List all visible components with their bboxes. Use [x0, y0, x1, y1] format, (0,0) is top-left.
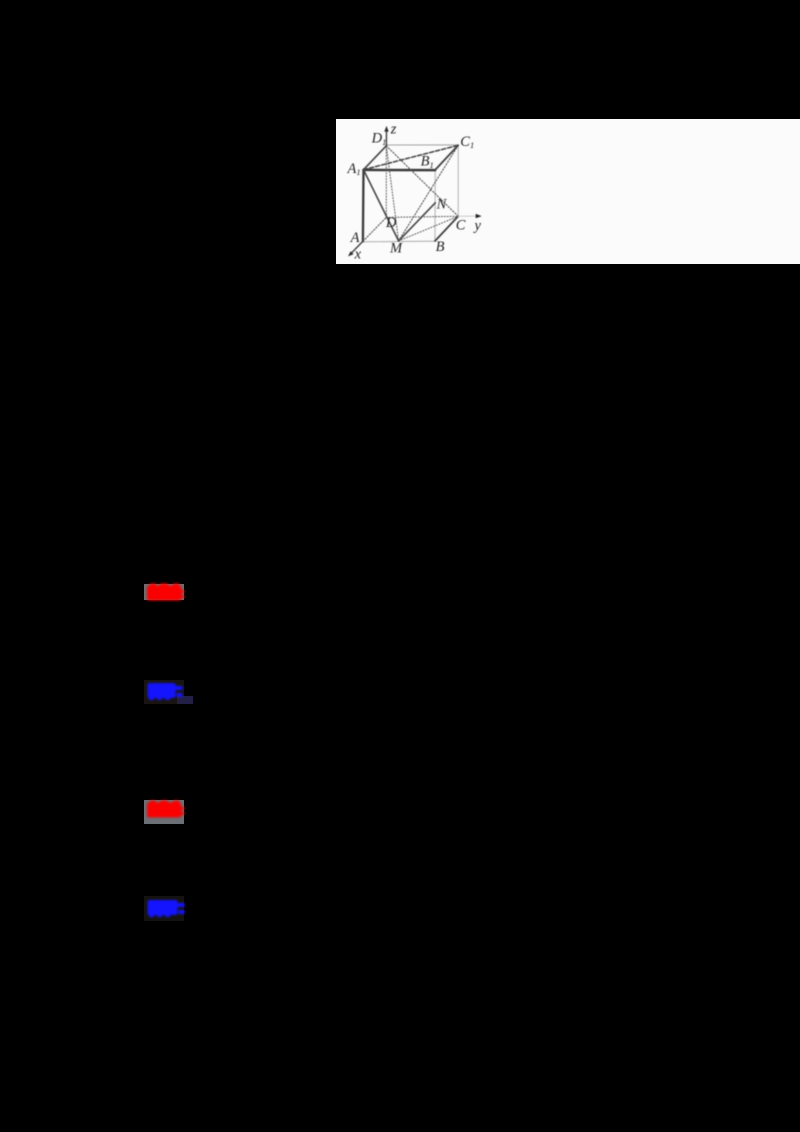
wire: edge A-B (bottom front, light) — [363, 240, 435, 243]
wire: segment A1-M — [364, 170, 399, 241]
svg-text:x: x — [354, 247, 362, 263]
svg-text:A1: A1 — [347, 161, 361, 177]
svg-text:D1: D1 — [371, 131, 387, 147]
red tag 2 (blurred 解析 label) — [144, 800, 184, 825]
red tag 1 (blurred 解析 label) — [144, 584, 184, 600]
wire: edge B-B1 (light) — [434, 170, 436, 241]
blue tag 2 (blurred 答案 label) — [144, 896, 185, 921]
svg-text:B: B — [436, 239, 445, 255]
wire: segment D1-M (dotted) — [386, 146, 398, 241]
wire: segment M-N — [399, 203, 436, 241]
wire: segment C1-M (dashed) — [399, 145, 459, 241]
wire: edge A-A1 (thick) — [362, 170, 365, 242]
wire: hidden edge D-D1 (dotted) — [385, 146, 387, 218]
wire: edge C-C1 (light) — [457, 145, 459, 216]
wire: edge A1-D1 — [364, 146, 387, 170]
wire: edge B-C — [435, 216, 458, 241]
svg-text:N: N — [436, 197, 448, 213]
wire: segment D1-C (dashed) — [386, 146, 458, 217]
z axis — [385, 130, 387, 146]
svg-text:z: z — [390, 121, 397, 137]
wire: edge B1-C1 — [435, 145, 458, 170]
svg-text:A: A — [350, 230, 360, 246]
svg-text:M: M — [389, 241, 403, 257]
svg-text:y: y — [473, 218, 482, 234]
blue tag 1 trailing navy box — [177, 696, 193, 704]
blue tag 1 (blurred 答案 label) — [144, 680, 185, 705]
wire: edge A1-B1 (thick) — [364, 169, 436, 172]
cube diagram figure — [336, 119, 504, 265]
svg-text:C1: C1 — [460, 134, 474, 150]
white scanned figure strip — [336, 119, 800, 264]
svg-text:C: C — [456, 217, 466, 233]
y axis — [458, 215, 477, 217]
wire: segment M-C (dotted) — [399, 216, 459, 241]
wire: hidden edge D-C (dotted) — [386, 216, 458, 217]
wire: diagonal A1-C1 (long dash) — [364, 145, 459, 169]
svg-text:B1: B1 — [421, 154, 434, 170]
wire: hidden edge A-D (dotted) — [363, 217, 386, 241]
svg-text:D: D — [385, 215, 397, 231]
wire: edge D1-C1 (light) — [386, 144, 458, 146]
x axis — [350, 241, 363, 254]
